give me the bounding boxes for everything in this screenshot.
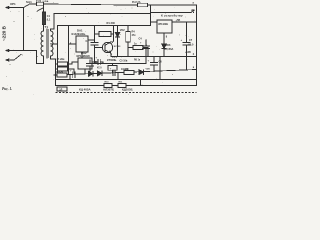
svg-text:FU1: FU1 xyxy=(36,0,42,3)
node tick x140 xyxy=(140,79,141,80)
wire mains-through top xyxy=(44,4,197,5)
svg-text:DA2: DA2 xyxy=(81,51,87,55)
transistor VT1 emitter lead xyxy=(105,50,111,57)
wire secondary bottom lead xyxy=(51,56,56,59)
node DA1 right pin xyxy=(94,39,95,40)
node rail1 left xyxy=(53,13,54,14)
node v5 top xyxy=(94,25,95,26)
svg-text:47,0: 47,0 xyxy=(97,67,102,70)
node lower input junction xyxy=(23,50,24,51)
node bus x160 xyxy=(159,70,160,71)
wire DA3 right pin xyxy=(92,61,97,63)
wire tap riser xyxy=(57,26,59,74)
switch SA1.2 blade xyxy=(37,8,44,12)
svg-text:КС156А: КС156А xyxy=(164,48,173,51)
wire v4 left of DA1 xyxy=(68,26,70,75)
diode VD8 xyxy=(98,71,103,76)
wire DA2 output xyxy=(172,21,197,23)
wire tick x118 xyxy=(117,73,119,80)
wire DA1 right pin xyxy=(88,39,95,41)
wire mid rail3b xyxy=(111,56,197,58)
resistor R3 lead right xyxy=(68,69,75,74)
capacitor C5 branch xyxy=(89,60,91,71)
svg-text:R1 330: R1 330 xyxy=(107,21,116,25)
wire mid rail3a xyxy=(94,63,146,65)
node R1 left xyxy=(94,33,95,34)
resistor R6 box xyxy=(108,66,117,71)
zener VD2 symbol xyxy=(115,33,119,38)
svg-text:SA1: SA1 xyxy=(26,0,32,4)
wire DA2 pin8 xyxy=(163,33,165,44)
node v4 top xyxy=(68,25,69,26)
node zener join xyxy=(117,56,118,57)
node emitter join xyxy=(110,56,111,57)
svg-text:К142ЕН1Б: К142ЕН1Б xyxy=(72,32,86,36)
fuse FU2 vertical dark box xyxy=(42,12,46,25)
wire rail3 jog xyxy=(145,57,147,64)
node VD2 top xyxy=(117,25,118,26)
node tap xyxy=(57,43,58,44)
svg-text:КТ608Б: КТ608Б xyxy=(107,58,117,62)
resistor R1 lead left xyxy=(95,33,100,35)
node bus x112 xyxy=(112,72,113,73)
node R5 join xyxy=(147,56,148,57)
diode VD7 xyxy=(89,71,94,76)
terminal arrow to device xyxy=(191,10,194,13)
transformer T1 core xyxy=(46,29,48,58)
wire second output rail xyxy=(56,79,197,81)
node tick x118 xyxy=(117,79,118,80)
wire branch x112.5 xyxy=(112,64,114,66)
svg-text:VD2: VD2 xyxy=(120,29,125,32)
fuse FU2 box xyxy=(138,3,148,7)
resistor R4 box xyxy=(126,32,130,43)
zener VD2 wire xyxy=(117,26,119,57)
dashed chassis line xyxy=(56,92,197,94)
resistor R1 lead right xyxy=(111,33,114,35)
plug XP1 third terminal arrow xyxy=(6,59,10,61)
svg-text:47 кОм: 47 кОм xyxy=(57,58,65,61)
resistor R7 box xyxy=(57,73,67,77)
svg-text:VD6: VD6 xyxy=(166,44,171,47)
resistor R4 wire top xyxy=(127,26,129,32)
svg-text:+12В: +12В xyxy=(185,51,191,54)
svg-text:42 кОм: 42 кОм xyxy=(56,70,64,73)
svg-text:АЛ307Б: АЛ307Б xyxy=(103,88,114,92)
wire v3 secondary-bottom riser xyxy=(55,59,57,86)
resistor R11 box xyxy=(118,84,126,88)
resistor R5 lead xyxy=(128,47,133,49)
wire base xyxy=(95,47,103,49)
resistor R10 box xyxy=(104,84,112,88)
wire DA3 bottom pin xyxy=(84,69,86,74)
node R4 bottom join xyxy=(127,56,128,57)
svg-text:~220 В: ~220 В xyxy=(2,25,7,41)
svg-text:FU2 2А: FU2 2А xyxy=(132,1,141,4)
fuse FU1 box xyxy=(37,2,44,6)
resistor R3 lead xyxy=(56,68,58,70)
svg-text:КР142ЕН8: КР142ЕН8 xyxy=(77,54,91,58)
capacitor C6 plates xyxy=(151,63,158,66)
wire ground bus xyxy=(54,70,197,76)
node tick x160 top xyxy=(159,56,160,57)
resistor R2 lead right xyxy=(68,62,79,64)
node C3 join xyxy=(102,63,103,64)
node riser rail1 xyxy=(150,13,151,14)
node DA2 input xyxy=(150,21,151,22)
wire DA1 to DA2 xyxy=(81,52,83,58)
wire fuse to transformer primary xyxy=(43,25,45,32)
wire DA1 pin2 xyxy=(69,43,77,45)
resistor R1 box xyxy=(99,32,111,37)
node bus x85 xyxy=(84,73,85,74)
resistor R2 box xyxy=(58,62,68,66)
resistor R8 box xyxy=(124,70,134,74)
wire riser DA2 input xyxy=(150,5,152,26)
svg-text:К устройству: К устройству xyxy=(161,13,183,17)
svg-text:50,0: 50,0 xyxy=(189,43,194,46)
wire secondary top lead xyxy=(51,14,54,32)
svg-text:ХР1: ХР1 xyxy=(10,2,16,6)
wire C8 lead xyxy=(71,73,73,75)
node riser top xyxy=(150,4,151,5)
svg-text:+5В: +5В xyxy=(176,19,181,22)
capacitor C8 plates xyxy=(73,72,75,78)
wire rail2 xyxy=(58,25,151,27)
capacitor C7 wire xyxy=(186,22,188,70)
capacitor C2 plates xyxy=(91,43,98,46)
capacitor C4 wire xyxy=(145,40,147,57)
wire top input xyxy=(10,7,24,9)
node R4 mid xyxy=(127,47,128,48)
node bus x154 xyxy=(153,71,154,72)
node collector rail xyxy=(113,25,114,26)
wire lower input xyxy=(10,50,37,52)
node v4 bottom xyxy=(68,74,69,75)
zener VD6 wire xyxy=(163,49,165,57)
wire third terminal bend xyxy=(10,55,22,61)
wire v5 cap branch xyxy=(94,26,96,64)
wire primary bottom lead xyxy=(43,56,45,64)
capacitor C4 plates xyxy=(143,46,150,49)
node C7 top xyxy=(186,21,187,22)
node bus x186 xyxy=(186,69,187,70)
svg-text:0,25А: 0,25А xyxy=(43,0,49,3)
capacitor C3 out plates xyxy=(98,59,100,65)
wire R6 bottom xyxy=(112,70,114,73)
wire right edge bus xyxy=(196,5,198,86)
wire tick x70 xyxy=(69,74,71,79)
node R4 top xyxy=(127,25,128,26)
transformer T1 primary winding xyxy=(41,31,44,56)
wire to primary bottom xyxy=(37,51,44,64)
wire output tap xyxy=(151,12,192,14)
zener VD6 symbol xyxy=(162,44,166,49)
diode VD9 xyxy=(139,70,144,75)
resistor R3 box xyxy=(58,67,68,71)
wire secondary center tap xyxy=(51,43,58,45)
svg-text:КР142ЕН: КР142ЕН xyxy=(158,23,168,26)
svg-text:Рис. 1.: Рис. 1. xyxy=(2,87,12,91)
resistor R2 lead xyxy=(56,63,58,65)
wire C3 out lead xyxy=(100,62,103,64)
node bottom x55 xyxy=(55,85,56,86)
wire riser neutral xyxy=(23,8,25,51)
svg-text:КД105Б: КД105Б xyxy=(122,88,133,92)
node base xyxy=(94,47,95,48)
svg-text:R6 1к: R6 1к xyxy=(134,60,141,62)
node VD6 bottom xyxy=(163,56,164,57)
transistor VT1 base bar xyxy=(104,44,106,51)
wire collector riser xyxy=(111,26,113,44)
regulator DA2 box xyxy=(157,20,172,33)
capacitor C7 plates xyxy=(183,43,190,46)
op-amp DA1 box xyxy=(76,36,88,52)
wire fuse to vertical xyxy=(43,6,45,12)
switch SA1 blade xyxy=(24,4,31,8)
svg-text:КС133: КС133 xyxy=(114,46,121,48)
capacitor C5 plates xyxy=(87,64,94,67)
wire tick x140 xyxy=(140,80,142,86)
transistor VT1 circle xyxy=(102,42,112,52)
resistor R4 wire bottom xyxy=(127,42,129,57)
capacitor C9 plates xyxy=(113,70,115,76)
plug XP1 lower terminal arrow xyxy=(6,49,10,51)
wire DA2 input xyxy=(151,21,158,23)
svg-text:2Л: 2Л xyxy=(59,89,62,91)
node tick x160b xyxy=(159,79,160,80)
plug XP1 top terminal arrow xyxy=(6,6,10,8)
wire bottom rail xyxy=(56,85,197,87)
node rail2b left xyxy=(55,79,56,80)
transistor VT1 collector lead xyxy=(105,42,111,46)
transformer T1 secondary winding xyxy=(51,31,54,56)
resistor R5 lead right xyxy=(143,48,148,57)
wire after switch xyxy=(30,3,37,5)
svg-text:С5 10в: С5 10в xyxy=(120,59,128,62)
capacitor C6 branch xyxy=(153,57,155,72)
svg-text:0,1: 0,1 xyxy=(47,19,51,22)
resistor R5 box xyxy=(133,46,143,50)
node right out xyxy=(196,21,197,22)
wire rail1 top xyxy=(54,13,151,15)
svg-text:КЦ 405А: КЦ 405А xyxy=(79,88,92,92)
relay K1 box xyxy=(57,87,67,91)
regulator DA3 box xyxy=(78,58,92,69)
node bus x55 xyxy=(55,74,56,75)
wire tick x160 xyxy=(159,57,161,80)
